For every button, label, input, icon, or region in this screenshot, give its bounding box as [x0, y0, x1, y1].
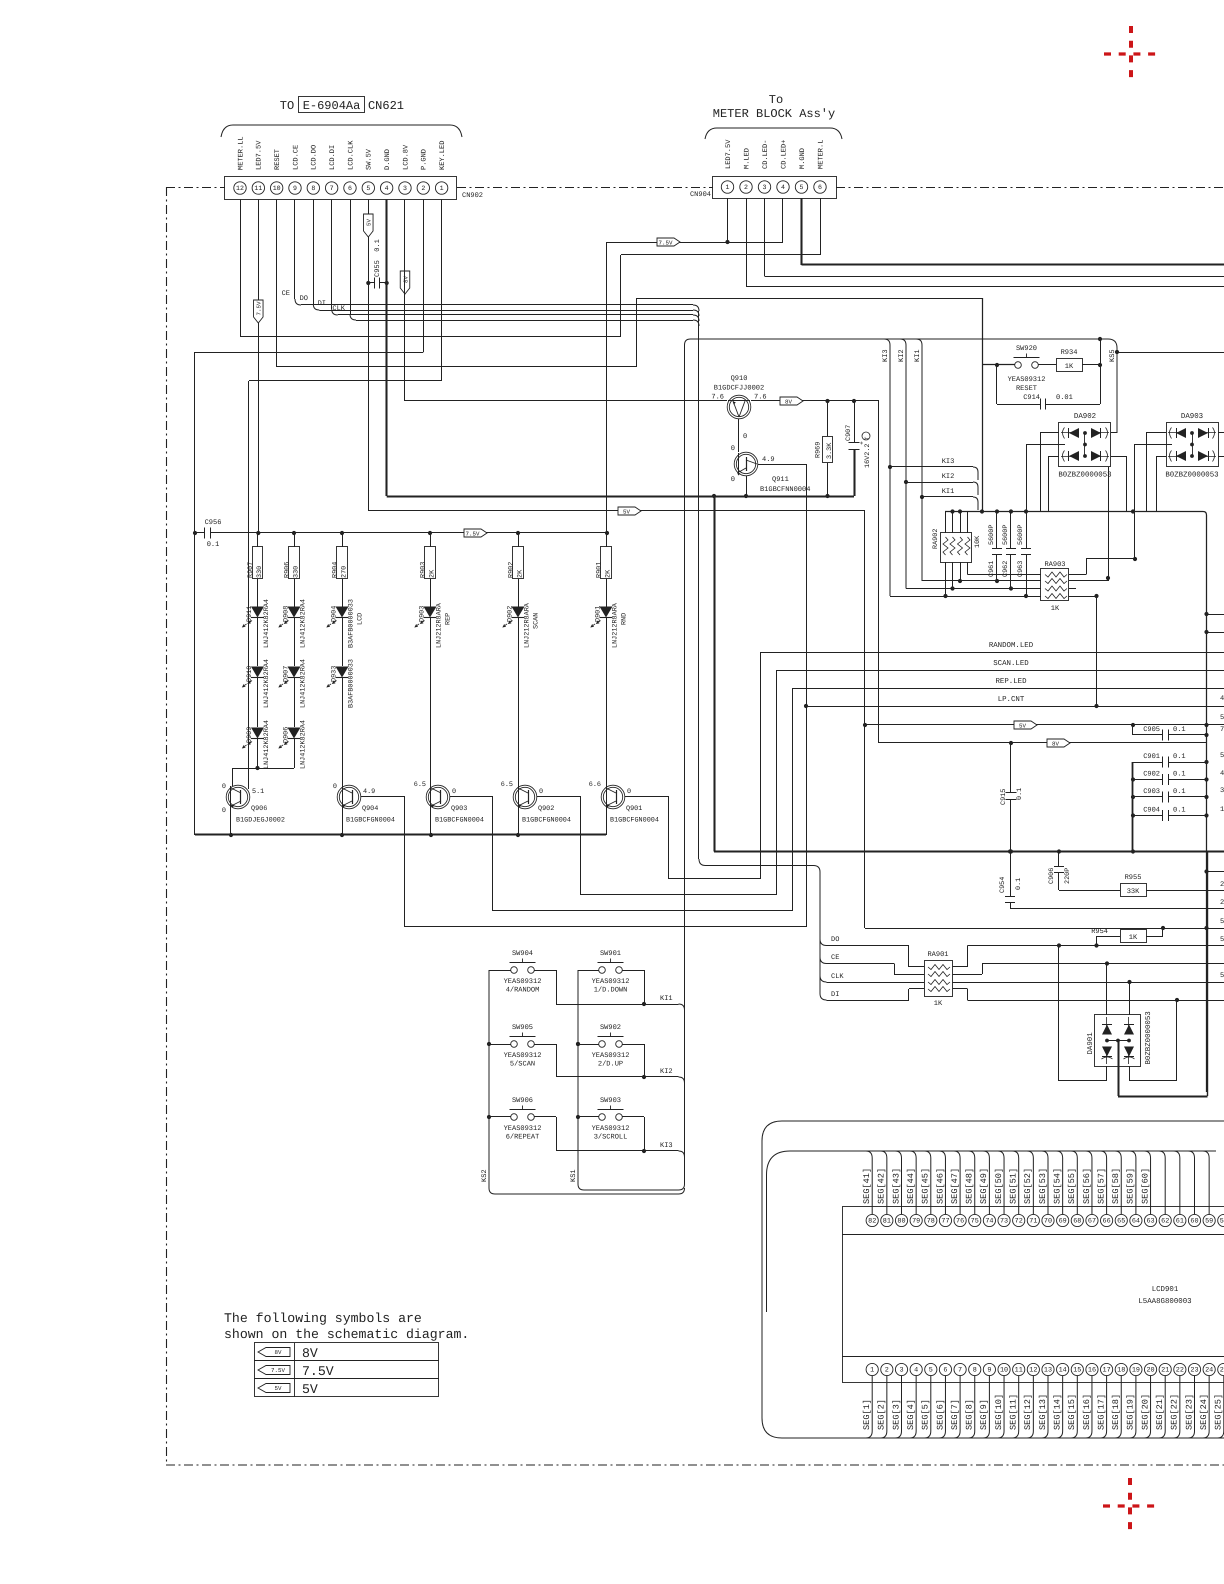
- registration mark bottom-right: [1103, 1478, 1159, 1534]
- wire SEG bottom pin 24: [1203, 1376, 1210, 1438]
- svg-text:SEG[10]: SEG[10]: [994, 1394, 1004, 1430]
- svg-text:SEG[43]: SEG[43]: [891, 1168, 901, 1204]
- svg-text:8V: 8V: [302, 1346, 318, 1361]
- wire RANDOM to Q901 base: [669, 878, 761, 880]
- wire RA902 outputs: [960, 562, 962, 581]
- wire scan row 3: [906, 588, 1041, 590]
- transistor Q903 B1GBCFGN0004: [426, 785, 450, 809]
- svg-text:LNJ412K82RA4: LNJ412K82RA4: [263, 720, 271, 769]
- svg-text:LNJ412K82RA4: LNJ412K82RA4: [300, 599, 308, 648]
- LCD pin 2: [881, 1363, 893, 1375]
- svg-text:23: 23: [1190, 1367, 1198, 1375]
- svg-text:59: 59: [1205, 1218, 1213, 1226]
- wire SEG top pin 73: [998, 1151, 1005, 1214]
- wire CN902 pin6 LCD.CLK: [350, 200, 352, 315]
- svg-text:CE: CE: [831, 954, 839, 962]
- svg-text:16V2.2: 16V2.2: [864, 444, 872, 468]
- svg-text:LNJ212R8ARA: LNJ212R8ARA: [524, 602, 532, 648]
- wire: [342, 618, 344, 666]
- svg-text:1: 1: [1220, 806, 1224, 814]
- LCD pin 15: [1071, 1363, 1083, 1375]
- svg-text:CN621: CN621: [368, 99, 404, 113]
- switch SW906 YEAS09312 6/REPEAT: [511, 1114, 518, 1121]
- wire CN902 pin3 LCD.8V drop: [404, 200, 406, 402]
- power flag 7.5V on feed wire: [657, 238, 680, 246]
- svg-text:SEG[11]: SEG[11]: [1009, 1394, 1019, 1430]
- wire D.GND bus: [387, 495, 854, 497]
- LCD pin 24: [1203, 1363, 1215, 1375]
- svg-text:0.1: 0.1: [1016, 788, 1024, 800]
- wire: [489, 1116, 511, 1118]
- svg-text:65: 65: [1117, 1218, 1125, 1226]
- wire SEG bottom pin 25: [1217, 1376, 1224, 1438]
- transistor Q911 B1GBCFNN0004: [734, 452, 758, 476]
- wire SEG bottom pin 13: [1042, 1376, 1049, 1438]
- svg-text:RESET: RESET: [1016, 385, 1037, 393]
- wire RA903 row4 out: [1069, 596, 1097, 598]
- wire KS2 vertical: [489, 970, 679, 1194]
- LCD pin 58: [1218, 1214, 1224, 1226]
- svg-text:D903: D903: [419, 606, 427, 622]
- wire SEG bottom pin 1: [866, 1376, 873, 1438]
- wire CN904 pin2 M.LED: [746, 198, 748, 287]
- transistor Q910 B1GDCFJJ0002: [727, 395, 751, 419]
- svg-text:7: 7: [330, 185, 334, 192]
- svg-text:4: 4: [1220, 770, 1224, 778]
- svg-text:R901: R901: [596, 562, 604, 578]
- svg-text:LP.CNT: LP.CNT: [998, 696, 1025, 704]
- wire CN902 pin12 METER.LL: [240, 200, 242, 338]
- wire SCAN.LED: [776, 670, 1224, 672]
- LCD pin 64: [1130, 1214, 1142, 1226]
- svg-text:B1GDJEGJ0002: B1GDJEGJ0002: [236, 817, 285, 825]
- wire SEG bottom pin 22: [1173, 1376, 1180, 1438]
- connector CN904 pin 2 (M.LED): [740, 181, 752, 193]
- LCD pin 70: [1042, 1214, 1054, 1226]
- wire SEG top pin 81: [880, 1151, 887, 1214]
- LCD pin 59: [1203, 1214, 1215, 1226]
- wire SEG bottom pin 5: [924, 1376, 931, 1438]
- LCD pin 21: [1159, 1363, 1171, 1375]
- LCD pin 23: [1188, 1363, 1200, 1375]
- svg-text:58: 58: [1220, 1218, 1224, 1226]
- svg-text:0.1: 0.1: [1173, 771, 1186, 779]
- svg-text:75: 75: [971, 1218, 979, 1226]
- svg-text:KEY.LED: KEY.LED: [439, 141, 447, 170]
- wire DA901 bottom right: [1129, 1066, 1131, 1081]
- svg-text:SEG[41]: SEG[41]: [862, 1168, 872, 1204]
- diode array DA903 B0ZBZ0000053: [1167, 423, 1219, 467]
- capacitor C954 0.1: [1010, 852, 1012, 897]
- wire stub right edge y871: [1207, 871, 1224, 873]
- svg-text:7: 7: [958, 1367, 962, 1375]
- svg-text:5V: 5V: [302, 1382, 318, 1397]
- resistor R904 270: [342, 533, 344, 547]
- svg-text:SEG[1]: SEG[1]: [862, 1399, 872, 1430]
- wire LP.CNT to Q904 base: [405, 926, 806, 928]
- svg-text:4/RANDOM: 4/RANDOM: [506, 986, 540, 995]
- svg-text:SW904: SW904: [512, 950, 533, 958]
- wire SEG top pin 68: [1071, 1151, 1078, 1214]
- svg-text:SEG[20]: SEG[20]: [1140, 1394, 1150, 1430]
- wire: [489, 970, 511, 972]
- resistor R969 3.3K: [827, 401, 829, 436]
- svg-text:76: 76: [956, 1218, 964, 1226]
- wire: [430, 618, 432, 786]
- LCD pin 12: [1027, 1363, 1039, 1375]
- svg-text:3: 3: [403, 185, 407, 192]
- LED D902 LNJ212R8ARA SCAN: [512, 607, 525, 618]
- wire 8V branch from Q910 rail: [878, 401, 880, 743]
- switch SW905 YEAS09312 5/SCAN: [511, 1041, 518, 1048]
- svg-text:2: 2: [885, 1367, 889, 1375]
- svg-text:D908: D908: [283, 606, 291, 622]
- svg-text:6: 6: [818, 184, 822, 191]
- svg-text:D906: D906: [283, 727, 291, 743]
- wire SEG bottom pin 4: [910, 1376, 917, 1438]
- svg-text:KI3: KI3: [660, 1142, 673, 1150]
- connector CN902 pin 7 (LCD.DI): [325, 182, 337, 194]
- LCD pin 63: [1144, 1214, 1156, 1226]
- svg-text:LCD: LCD: [357, 613, 365, 625]
- capacitor C955 0.1: [368, 282, 374, 284]
- LCD pin 17: [1101, 1363, 1113, 1375]
- switch SW920 YEAS09312 RESET: [1015, 362, 1022, 369]
- connector CN904 pin 5 (M.GND): [795, 181, 807, 193]
- resistor R955 33K: [1059, 890, 1120, 892]
- svg-text:D911: D911: [246, 606, 254, 622]
- svg-text:KI1: KI1: [914, 349, 922, 362]
- wire R934 riser to trunk: [1100, 339, 1102, 365]
- capacitor C962 5600P: [1010, 512, 1012, 549]
- LCD pin 62: [1159, 1214, 1171, 1226]
- capacitor C914 0.01: [996, 365, 998, 404]
- wire: [294, 739, 296, 768]
- svg-text:SEG[16]: SEG[16]: [1082, 1394, 1092, 1430]
- LCD pin 60: [1188, 1214, 1200, 1226]
- LED D908 LNJ412K82RA4: [288, 607, 301, 618]
- svg-text:5V: 5V: [275, 1385, 282, 1392]
- transistor Q906 B1GDJEGJ0002: [226, 785, 250, 809]
- wire KI1 row: [556, 1004, 679, 1006]
- svg-text:5600P: 5600P: [1017, 525, 1025, 545]
- svg-text:SEG[49]: SEG[49]: [979, 1168, 989, 1204]
- svg-text:T: T: [863, 436, 870, 440]
- svg-text:5: 5: [1220, 936, 1224, 944]
- wire RA903 row2 out: [1069, 580, 1108, 582]
- wire D.GND vertical: [713, 496, 715, 852]
- wire SEG top pin 64: [1129, 1151, 1136, 1214]
- wire Q902 base: [537, 796, 581, 798]
- wire Q910 collector to Q911: [738, 419, 740, 452]
- svg-text:SEG[6]: SEG[6]: [935, 1399, 945, 1430]
- wire SEG top pin 71: [1027, 1151, 1034, 1214]
- LCD pin 19: [1130, 1363, 1142, 1375]
- svg-text:2K: 2K: [604, 569, 612, 578]
- wire CN902 pin11 LED7.5V drop: [258, 200, 260, 534]
- wire DI out: [953, 988, 968, 990]
- LCD pin 25: [1218, 1363, 1224, 1375]
- svg-text:D.GND: D.GND: [384, 149, 392, 170]
- connector CN904 pin 6 (METER.L): [814, 181, 826, 193]
- wire SEG bottom pin 14: [1056, 1376, 1063, 1438]
- svg-text:C906: C906: [1048, 868, 1056, 884]
- svg-text:5/SCAN: 5/SCAN: [510, 1060, 535, 1069]
- svg-text:P.GND: P.GND: [421, 149, 429, 170]
- LCD pin 18: [1115, 1363, 1127, 1375]
- svg-text:LED7.5V: LED7.5V: [725, 139, 733, 169]
- wire SEG bottom pin 10: [998, 1376, 1005, 1438]
- svg-text:3: 3: [763, 184, 767, 191]
- svg-text:SEG[50]: SEG[50]: [994, 1168, 1004, 1204]
- svg-text:6.5: 6.5: [501, 781, 513, 789]
- wire SEG top pin 70: [1042, 1151, 1049, 1214]
- LCD pin 82: [866, 1214, 878, 1226]
- switch SW904 YEAS09312 4/RANDOM: [511, 967, 518, 974]
- wire Q902 emitter: [518, 808, 520, 835]
- power flag 7.5V on rail: [464, 529, 487, 537]
- wire CN904 pin4 CD.LED+ drop: [782, 198, 784, 242]
- wire CN902 pin5 SW.5V drop: [368, 200, 370, 512]
- svg-text:SEG[47]: SEG[47]: [950, 1168, 960, 1204]
- wire DA903 row2 left: [1156, 456, 1166, 458]
- connector CN902 pin 6 (LCD.CLK): [344, 182, 356, 194]
- svg-text:2K: 2K: [428, 569, 436, 578]
- svg-text:SEG[58]: SEG[58]: [1111, 1168, 1121, 1204]
- svg-text:To: To: [769, 93, 783, 107]
- wire KI3 drop: [884, 339, 890, 596]
- connector CN902 pin 8 (LCD.DO): [307, 182, 319, 194]
- svg-text:0: 0: [743, 433, 747, 441]
- svg-text:C954: C954: [999, 877, 1007, 893]
- wire LED ground bus: [195, 833, 606, 835]
- wire CN902 pin4 D.GND drop: [385, 200, 387, 497]
- wire stub right edge y632: [1207, 632, 1224, 634]
- connector CN902 pin 12 (METER.LL): [234, 182, 246, 194]
- svg-text:10K: 10K: [974, 535, 982, 548]
- svg-text:SEG[51]: SEG[51]: [1009, 1168, 1019, 1204]
- LCD pin 11: [1013, 1363, 1025, 1375]
- wire C901-C904 ground riser: [1132, 762, 1134, 852]
- svg-text:RA902: RA902: [932, 529, 940, 549]
- wire DA903 row1 left: [1146, 432, 1166, 434]
- svg-text:1: 1: [870, 1367, 874, 1375]
- svg-text:5: 5: [1220, 714, 1224, 722]
- connector CN904 pin 3 (CD.LED-): [758, 181, 770, 193]
- svg-text:6.6: 6.6: [589, 781, 601, 789]
- wire: [623, 970, 645, 972]
- svg-text:D904: D904: [331, 606, 339, 622]
- wire lower ground bus: [714, 850, 1224, 852]
- wire SEG top pin 75: [968, 1151, 975, 1214]
- LCD pin 80: [895, 1214, 907, 1226]
- wire DA902 center tap: [1026, 444, 1065, 446]
- svg-text:LNJ412K82RA4: LNJ412K82RA4: [300, 720, 308, 769]
- wire: [623, 1116, 645, 1118]
- svg-text:LCD.8V: LCD.8V: [402, 144, 410, 170]
- capacitor C905 0.1: [1132, 725, 1134, 735]
- wire scan row 4: [890, 596, 1041, 598]
- svg-text:4.9: 4.9: [762, 456, 775, 464]
- svg-text:SEG[42]: SEG[42]: [877, 1168, 887, 1204]
- wire scan bus: [945, 511, 1203, 513]
- wire SCAN to Q902 base: [581, 894, 776, 896]
- LCD pin 6: [939, 1363, 951, 1375]
- wire KI3 row: [556, 1150, 679, 1152]
- legend 7.5V flag: [258, 1366, 290, 1375]
- svg-text:78: 78: [927, 1218, 935, 1226]
- svg-text:SEG[19]: SEG[19]: [1126, 1394, 1136, 1430]
- diode array DA902 B0ZBZ0000053: [1059, 423, 1111, 467]
- svg-text:17: 17: [1103, 1367, 1111, 1375]
- resistor array RA903 1K: [1041, 569, 1069, 601]
- wire SEG top pin 78: [924, 1151, 931, 1214]
- LED D911 LNJ412K82RA4: [251, 607, 264, 618]
- svg-text:R906: R906: [284, 562, 292, 578]
- wire DO branch: [820, 939, 827, 946]
- svg-text:67: 67: [1088, 1218, 1096, 1226]
- svg-text:D902: D902: [507, 606, 515, 622]
- wire SEG top pin 65: [1115, 1151, 1122, 1214]
- svg-text:SEG[5]: SEG[5]: [921, 1399, 931, 1430]
- svg-text:SEG[15]: SEG[15]: [1067, 1394, 1077, 1430]
- wire: [1096, 596, 1098, 706]
- svg-text:3.3K: 3.3K: [826, 442, 834, 459]
- wire Q911 emitter: [746, 476, 748, 496]
- svg-text:6: 6: [943, 1367, 947, 1375]
- svg-text:71: 71: [1029, 1218, 1037, 1226]
- svg-text:8: 8: [973, 1367, 977, 1375]
- svg-text:DI: DI: [831, 991, 839, 999]
- svg-text:5V: 5V: [623, 508, 630, 515]
- svg-text:DA902: DA902: [1074, 413, 1096, 421]
- svg-text:0: 0: [627, 788, 631, 796]
- legend 5V flag: [258, 1384, 290, 1393]
- wire SEG bottom pin 20: [1144, 1376, 1151, 1438]
- svg-text:5.1: 5.1: [252, 788, 264, 796]
- svg-text:YEAS09312: YEAS09312: [592, 1125, 630, 1133]
- wire Q906 emitter: [230, 808, 232, 835]
- svg-text:CD.LED-: CD.LED-: [762, 140, 770, 169]
- diode array DA901 B0ZBZ0000053: [1095, 1015, 1141, 1067]
- sheet border dash-dot: [166, 187, 1224, 1465]
- svg-text:CLK: CLK: [831, 973, 844, 981]
- wire: [294, 618, 296, 666]
- svg-text:RND: RND: [621, 613, 629, 625]
- svg-text:5V: 5V: [1019, 722, 1026, 729]
- svg-text:5: 5: [366, 185, 370, 192]
- svg-text:7.5V: 7.5V: [271, 1367, 285, 1374]
- svg-text:KI2: KI2: [660, 1068, 673, 1076]
- LED D904 B3AFB0000033: [336, 607, 349, 618]
- svg-text:SEG[44]: SEG[44]: [906, 1168, 916, 1204]
- wire: [578, 1044, 599, 1046]
- svg-text:SEG[45]: SEG[45]: [921, 1168, 931, 1204]
- svg-text:B3AFB0000033: B3AFB0000033: [348, 599, 356, 648]
- legend 8V flag: [258, 1348, 290, 1357]
- wire: [518, 618, 520, 786]
- transistor Q902 B1GBCFGN0004: [513, 785, 537, 809]
- svg-text:YEAS09312: YEAS09312: [592, 1052, 630, 1060]
- svg-text:C905: C905: [1143, 726, 1160, 734]
- wire CN902 pin8 LCD.DO: [313, 200, 315, 305]
- svg-text:C955 0.1: C955 0.1: [374, 239, 382, 277]
- svg-text:CLK: CLK: [332, 305, 345, 313]
- svg-text:LNJ212R8ARA: LNJ212R8ARA: [612, 602, 620, 648]
- svg-text:RANDOM.LED: RANDOM.LED: [989, 642, 1034, 650]
- wire RA903 row3 out: [1069, 588, 1076, 590]
- LED D901 LNJ212R8ARA RND: [600, 607, 613, 618]
- wire LCD top segment trunk: [767, 1151, 1217, 1312]
- transistor Q901 B1GBCFGN0004: [601, 785, 625, 809]
- capacitor C906 220P: [1058, 852, 1060, 867]
- LCD pin 77: [939, 1214, 951, 1226]
- LCD pin 78: [925, 1214, 937, 1226]
- svg-text:4: 4: [914, 1367, 918, 1375]
- svg-text:C904: C904: [1143, 807, 1160, 815]
- wire SEG bottom pin 6: [939, 1376, 946, 1438]
- svg-text:8V: 8V: [275, 1349, 282, 1356]
- svg-text:7.5V: 7.5V: [256, 301, 263, 315]
- resistor R902 2K: [518, 533, 520, 547]
- svg-text:R903: R903: [420, 562, 428, 578]
- wire RA903 row1 out: [1069, 574, 1086, 576]
- svg-text:Q910: Q910: [731, 375, 748, 383]
- svg-text:2: 2: [421, 185, 425, 192]
- wire SEG bottom pin 8: [968, 1376, 975, 1438]
- wire 7.5V feed to CN904: [607, 242, 783, 244]
- svg-text:KI2: KI2: [942, 473, 955, 481]
- svg-text:19: 19: [1132, 1367, 1140, 1375]
- wire Q901 base: [625, 796, 669, 798]
- svg-text:CE: CE: [282, 290, 290, 298]
- svg-text:METER.LL: METER.LL: [237, 136, 245, 170]
- wire DA902 row1 right to KS5 vertical: [1111, 432, 1117, 434]
- connector CN904 pin 4 (CD.LED+): [777, 181, 789, 193]
- svg-text:Q902: Q902: [538, 805, 554, 813]
- wire: [578, 1116, 599, 1118]
- svg-text:SEG[13]: SEG[13]: [1038, 1394, 1048, 1430]
- svg-text:0.1: 0.1: [207, 541, 220, 549]
- wire 5V lower line: [865, 928, 1207, 930]
- connector CN902 pin 11 (LED7.5V): [252, 182, 264, 194]
- resistor array RA902 10K: [945, 512, 947, 534]
- svg-text:B0ZBZ0000053: B0ZBZ0000053: [1058, 472, 1111, 480]
- wire SEG bottom pin 9: [983, 1376, 990, 1438]
- LCD pin 3: [895, 1363, 907, 1375]
- svg-text:R955: R955: [1125, 874, 1142, 882]
- svg-text:7.5V: 7.5V: [659, 239, 673, 246]
- wire SEG bottom pin 11: [1012, 1376, 1019, 1438]
- LCD pin 4: [910, 1363, 922, 1375]
- LCD901 body: [843, 1207, 1224, 1383]
- connector CN904: [713, 177, 837, 199]
- svg-text:LED7.5V: LED7.5V: [256, 140, 264, 170]
- svg-text:Q911: Q911: [772, 476, 789, 484]
- svg-text:SW920: SW920: [1016, 345, 1037, 353]
- svg-text:11: 11: [254, 185, 262, 192]
- svg-text:DA901: DA901: [1087, 1032, 1095, 1055]
- svg-text:RA901: RA901: [927, 951, 948, 959]
- wire RESET riser: [636, 298, 638, 367]
- wire SEG top pin 61: [1173, 1151, 1180, 1214]
- svg-text:SW901: SW901: [600, 950, 621, 958]
- svg-text:SW.5V: SW.5V: [366, 148, 374, 170]
- wire CLK branch: [820, 976, 827, 983]
- svg-text:330: 330: [256, 566, 264, 578]
- svg-text:66: 66: [1103, 1218, 1111, 1226]
- svg-text:C956: C956: [205, 519, 222, 527]
